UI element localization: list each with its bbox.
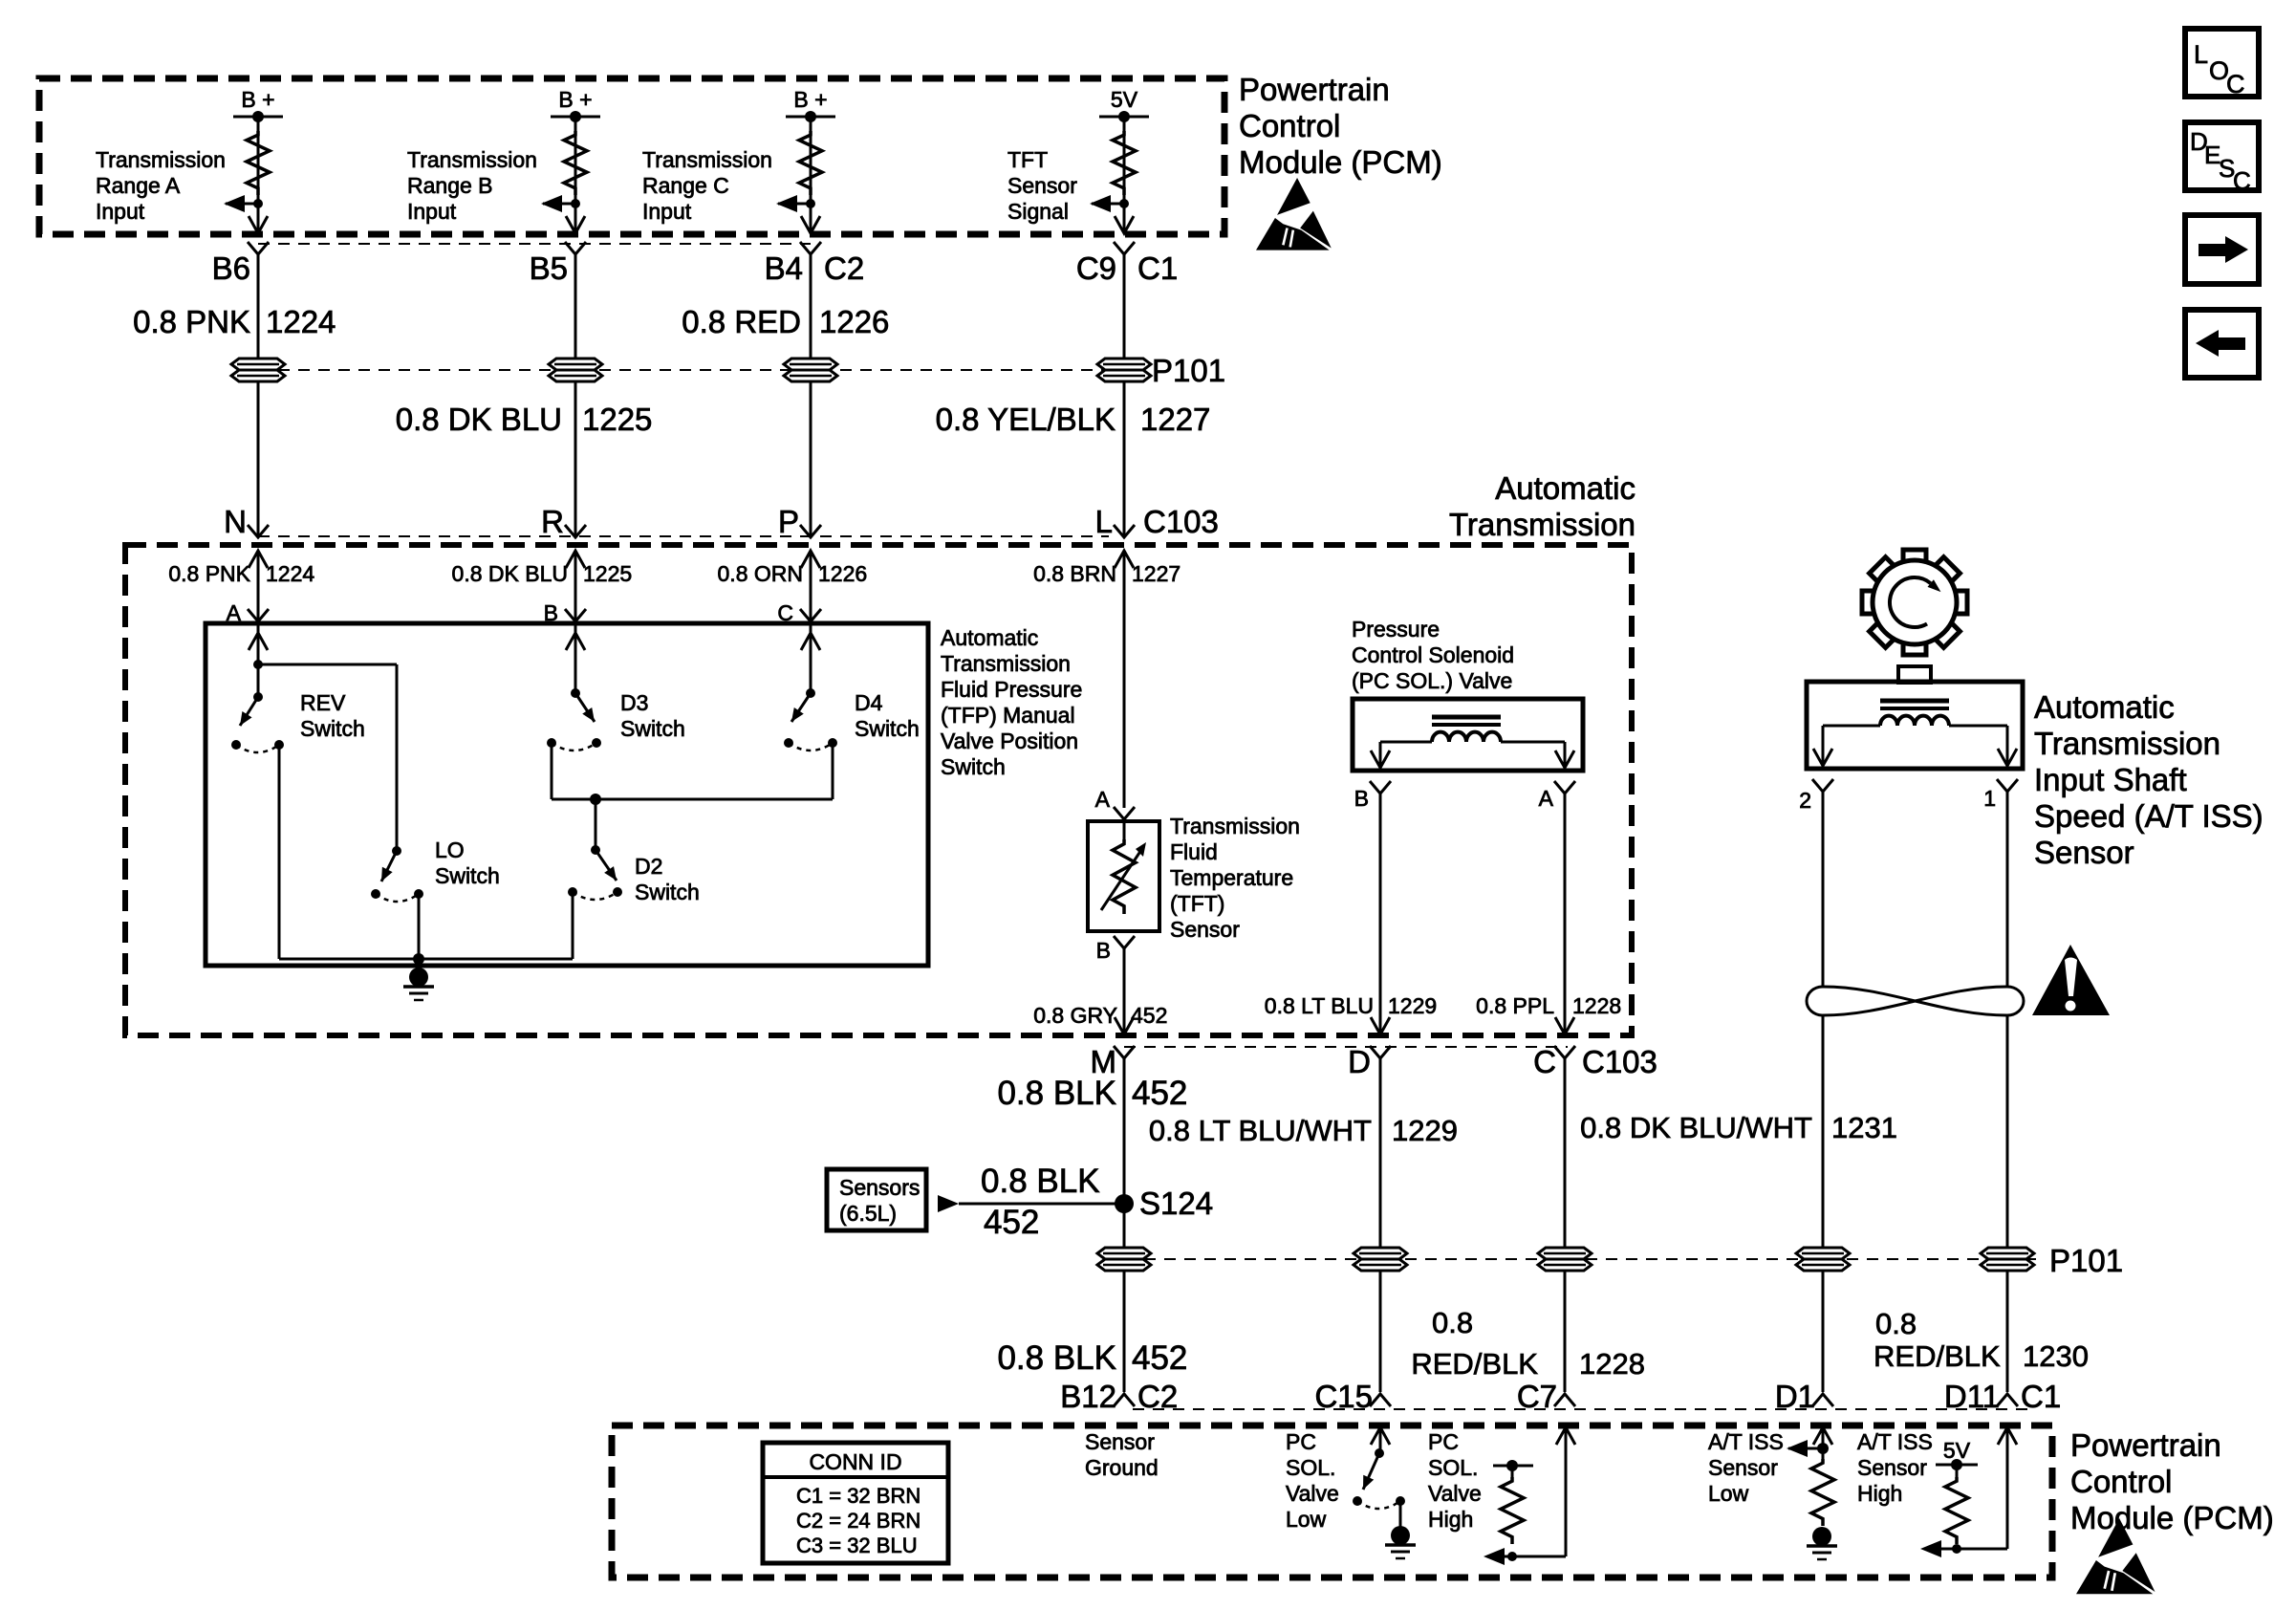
- wire with direction arrow: [1115, 551, 1134, 568]
- svg-text:C2 = 24 BRN: C2 = 24 BRN: [796, 1509, 921, 1533]
- svg-text:L: L: [1095, 504, 1113, 539]
- svg-text:Sensor: Sensor: [2034, 835, 2134, 870]
- connector pin C15: [1370, 1394, 1391, 1406]
- connector pin B6: [248, 242, 269, 254]
- A/T ISS sensor box: [1807, 682, 2023, 769]
- svg-text:High: High: [1857, 1481, 1902, 1506]
- svg-text:A/T ISS: A/T ISS: [1708, 1429, 1784, 1454]
- REV switch: [249, 633, 268, 650]
- svg-text:0.8 RED: 0.8 RED: [682, 304, 801, 339]
- P101 pass-through grommet: [549, 359, 602, 381]
- arrows leaving AT box: [1371, 1017, 1390, 1034]
- svg-text:B12: B12: [1060, 1379, 1116, 1414]
- svg-text:R: R: [541, 504, 564, 539]
- svg-text:PC: PC: [1428, 1429, 1459, 1454]
- wire: [574, 117, 577, 232]
- P101 pass-through grommet: [1796, 1248, 1850, 1271]
- P101 pass-through grommet: [1097, 359, 1151, 381]
- svg-text:(PC SOL.) Valve: (PC SOL.) Valve: [1352, 668, 1512, 693]
- node junction at B+ resistor output: [806, 199, 815, 208]
- svg-text:Input: Input: [96, 199, 145, 224]
- resistor A/T ISS low: [1811, 1459, 1834, 1526]
- svg-text:1226: 1226: [818, 561, 867, 586]
- P101 pass-through grommet: [1354, 1248, 1407, 1271]
- svg-text:Automatic: Automatic: [1495, 470, 1635, 506]
- svg-text:LO: LO: [435, 838, 465, 862]
- twisted pair symbol: [1807, 987, 2024, 1015]
- wire 1231 DK BLU/WHT upper: [1822, 792, 1825, 987]
- svg-text:0.8 BRN: 0.8 BRN: [1033, 561, 1116, 586]
- PCM module box (bottom): [612, 1425, 2052, 1577]
- resistor PC SOL valve high: [1507, 1552, 1517, 1561]
- connector pin N of C103: [248, 525, 269, 537]
- connector P101 (row 1, thin dashed): [258, 369, 1137, 371]
- svg-text:P: P: [778, 504, 799, 539]
- svg-text:Ground: Ground: [1085, 1455, 1159, 1480]
- warning triangle note: [2032, 945, 2110, 1015]
- svg-text:D1: D1: [1775, 1379, 1815, 1414]
- svg-text:1229: 1229: [1392, 1114, 1458, 1147]
- svg-text:(TFT): (TFT): [1170, 891, 1224, 916]
- pin D of C103: [1370, 1046, 1391, 1058]
- svg-text:D4: D4: [855, 690, 883, 715]
- connector pin R of C103: [565, 525, 586, 537]
- wire 1229 LT BLU/WHT: [1379, 1058, 1382, 1248]
- wire segment 1226 RED: [810, 254, 812, 359]
- node junction at B+ resistor output: [253, 199, 263, 208]
- wire 452 BLK: [1123, 1058, 1126, 1248]
- svg-text:Range A: Range A: [96, 173, 181, 198]
- wire: [1564, 1271, 1567, 1392]
- DESC button: [2185, 122, 2259, 190]
- svg-text:B4: B4: [765, 250, 803, 286]
- svg-text:Powertrain: Powertrain: [1239, 72, 1390, 107]
- svg-text:RED/BLK: RED/BLK: [1411, 1347, 1538, 1381]
- svg-text:1225: 1225: [582, 402, 652, 437]
- svg-text:B +: B +: [558, 87, 592, 112]
- svg-text:Switch: Switch: [300, 716, 365, 741]
- PC solenoid coil L1: [1432, 715, 1501, 720]
- svg-text:1228: 1228: [1572, 993, 1621, 1018]
- svg-text:Valve: Valve: [1428, 1481, 1482, 1506]
- wire: [810, 117, 812, 232]
- svg-text:Switch: Switch: [435, 863, 500, 888]
- wire: [1822, 1271, 1825, 1392]
- svg-text:Switch: Switch: [635, 880, 700, 904]
- ESD sensitivity symbol (bottom): [2076, 1518, 2155, 1594]
- svg-text:L: L: [2194, 40, 2208, 69]
- D2 switch: [596, 850, 617, 881]
- svg-text:Powertrain: Powertrain: [2070, 1427, 2221, 1463]
- connector line (thin dashed) into PCM: [1133, 1408, 2027, 1410]
- svg-text:1224: 1224: [266, 304, 336, 339]
- svg-text:C2: C2: [1137, 1379, 1178, 1414]
- TFP switch pin A: [248, 609, 269, 621]
- wire 1228 RED/BLK: [1564, 1058, 1567, 1248]
- wire with direction arrow: [801, 551, 820, 568]
- ground (TFP switch case): [409, 968, 428, 987]
- ISS sensor mount: [1898, 666, 1931, 683]
- svg-text:Control Solenoid: Control Solenoid: [1352, 642, 1514, 667]
- Automatic Transmission boundary box: [125, 545, 1632, 1035]
- wire to P101 right: [2006, 1015, 2009, 1248]
- svg-text:B6: B6: [212, 250, 250, 286]
- ESD sensitivity symbol (top): [1256, 178, 1332, 250]
- svg-text:Valve: Valve: [1286, 1481, 1339, 1506]
- svg-text:Transmission: Transmission: [1449, 507, 1635, 542]
- node junction on bus: [590, 794, 601, 805]
- svg-text:REV: REV: [300, 690, 346, 715]
- pin C of C103: [1554, 1046, 1575, 1058]
- gear icon (input shaft): [1862, 550, 1967, 655]
- svg-text:C: C: [2233, 166, 2251, 195]
- svg-text:Range B: Range B: [407, 173, 493, 198]
- P101 pass-through grommet: [784, 359, 837, 381]
- svg-text:0.8: 0.8: [1432, 1306, 1473, 1339]
- svg-text:P101: P101: [1152, 353, 1225, 388]
- svg-text:SOL.: SOL.: [1428, 1455, 1478, 1480]
- svg-text:(TFP) Manual: (TFP) Manual: [941, 703, 1075, 728]
- connector C103 (row 1, thin dashed): [258, 535, 1109, 537]
- svg-text:Switch: Switch: [620, 716, 685, 741]
- connector pin C9 / C1: [1114, 242, 1135, 254]
- svg-text:Transmission: Transmission: [642, 147, 772, 172]
- svg-text:Sensor: Sensor: [1708, 1455, 1778, 1480]
- wire REV contact down to bottom bus: [278, 745, 281, 959]
- svg-text:1224: 1224: [266, 561, 314, 586]
- svg-text:C1: C1: [2021, 1379, 2061, 1414]
- svg-text:452: 452: [1131, 1003, 1167, 1028]
- svg-text:Module (PCM): Module (PCM): [1239, 144, 1442, 180]
- connector P101 (row 2, thin dashed): [1124, 1258, 2036, 1260]
- svg-text:D: D: [1348, 1044, 1371, 1079]
- svg-text:Transmission: Transmission: [1170, 814, 1300, 838]
- svg-text:0.8 ORN: 0.8 ORN: [718, 561, 803, 586]
- svg-text:Speed (A/T ISS): Speed (A/T ISS): [2034, 798, 2264, 834]
- connector pin B5: [565, 242, 586, 254]
- arrow out of PCM: [566, 216, 585, 233]
- wire to internal logic with arrow: [226, 203, 258, 206]
- resistor R4 TFT sensor pull-up: [1113, 131, 1136, 195]
- wire segment 1227 YEL/BLK: [1123, 254, 1126, 359]
- svg-text:High: High: [1428, 1507, 1473, 1532]
- wire with direction arrow: [249, 551, 268, 568]
- ground (A/T ISS low): [1812, 1527, 1831, 1546]
- svg-text:D11: D11: [1944, 1379, 2000, 1414]
- arrow out of PCM: [249, 216, 268, 233]
- PCM module box (top): [39, 78, 1224, 234]
- svg-text:Fluid: Fluid: [1170, 839, 1218, 864]
- svg-text:Sensors: Sensors: [839, 1175, 920, 1200]
- connector pin D11 / C1: [1997, 1394, 2018, 1406]
- PC solenoid valve box: [1353, 699, 1583, 771]
- arrow out of PCM: [801, 216, 820, 233]
- resistor R1 Transmission Range A pull-up: [247, 131, 270, 195]
- wire to internal logic with arrow: [543, 203, 575, 206]
- TFP switch pin B: [565, 609, 586, 621]
- resistor A/T ISS high (5V): [1945, 1477, 1968, 1544]
- svg-text:Low: Low: [1286, 1507, 1327, 1532]
- arrow out of PCM: [1115, 216, 1134, 233]
- svg-text:Automatic: Automatic: [2034, 689, 2175, 725]
- wire 452 BLK to splice: [959, 1203, 1124, 1206]
- P101 pass-through grommet: [1981, 1248, 2034, 1271]
- svg-text:1231: 1231: [1831, 1111, 1897, 1144]
- wire D2 contact to bottom bus: [572, 892, 574, 959]
- svg-text:A: A: [1539, 786, 1554, 811]
- CONN ID table: [763, 1443, 948, 1563]
- svg-text:Input Shaft: Input Shaft: [2034, 762, 2187, 797]
- wire to internal logic with arrow: [1092, 203, 1124, 206]
- wire: [1123, 1271, 1126, 1392]
- svg-text:Low: Low: [1708, 1481, 1749, 1506]
- svg-text:1225: 1225: [583, 561, 632, 586]
- connector pin P of C103: [800, 525, 821, 537]
- svg-text:C103: C103: [1143, 504, 1219, 539]
- wire: [1379, 1271, 1382, 1392]
- P101 pass-through grommet: [1538, 1248, 1592, 1271]
- pin M of C103: [1114, 1046, 1135, 1058]
- wire 452 GRY from TFT sensor: [1123, 948, 1126, 1021]
- svg-text:452: 452: [1132, 1075, 1187, 1112]
- svg-text:Transmission: Transmission: [96, 147, 226, 172]
- svg-text:0.8 DK BLU: 0.8 DK BLU: [396, 402, 562, 437]
- svg-text:TFT: TFT: [1007, 147, 1048, 172]
- svg-text:Automatic: Automatic: [941, 625, 1038, 650]
- wire to internal logic with arrow: [778, 203, 811, 206]
- svg-text:C3 = 32 BLU: C3 = 32 BLU: [796, 1534, 918, 1557]
- svg-text:452: 452: [1132, 1339, 1187, 1377]
- svg-text:0.8 PPL: 0.8 PPL: [1476, 993, 1554, 1018]
- svg-text:D2: D2: [635, 854, 662, 879]
- svg-text:1228: 1228: [1579, 1347, 1645, 1381]
- wire 1230 RED/BLK upper: [2006, 792, 2009, 987]
- svg-text:D3: D3: [620, 690, 648, 715]
- svg-text:Valve Position: Valve Position: [941, 729, 1078, 753]
- svg-text:5V: 5V: [1111, 87, 1138, 112]
- TFP manual valve position switch box: [206, 623, 928, 966]
- connector pin B4 / C2: [800, 242, 821, 254]
- P101 pass-through grommet: [231, 359, 285, 381]
- svg-text:Transmission: Transmission: [941, 651, 1071, 676]
- PC SOL valve low driver switch: [1371, 1427, 1390, 1445]
- node junction to ground: [413, 953, 424, 965]
- svg-text:Input: Input: [407, 199, 457, 224]
- svg-text:Control: Control: [1239, 108, 1340, 143]
- svg-text:C1: C1: [1137, 250, 1178, 286]
- splice S124: [1115, 1194, 1134, 1213]
- wire segment 1224 PNK: [257, 254, 260, 359]
- svg-text:0.8 PNK: 0.8 PNK: [133, 304, 250, 339]
- wire LO contact to ground bus: [418, 894, 421, 959]
- node junction at 5V resistor output: [1119, 199, 1129, 208]
- svg-text:Transmission: Transmission: [2034, 726, 2220, 761]
- svg-text:Module (PCM): Module (PCM): [2070, 1500, 2274, 1535]
- svg-text:0.8 PNK: 0.8 PNK: [168, 561, 250, 586]
- wire: [2006, 1271, 2009, 1392]
- svg-text:0.8 BLK: 0.8 BLK: [981, 1163, 1100, 1200]
- svg-text:2: 2: [1799, 788, 1811, 813]
- connector pin B12 / C2: [1114, 1394, 1135, 1406]
- svg-text:B: B: [1096, 938, 1111, 963]
- svg-text:P101: P101: [2049, 1243, 2123, 1278]
- svg-text:1226: 1226: [819, 304, 889, 339]
- svg-text:A: A: [1095, 787, 1111, 812]
- svg-text:0.8 BLK: 0.8 BLK: [997, 1075, 1116, 1112]
- svg-text:Pressure: Pressure: [1352, 617, 1440, 642]
- svg-text:C1 = 32 BRN: C1 = 32 BRN: [796, 1484, 921, 1508]
- svg-text:C15: C15: [1314, 1379, 1373, 1414]
- svg-text:C103: C103: [1582, 1044, 1657, 1079]
- svg-text:Sensor: Sensor: [1085, 1429, 1155, 1454]
- node junction at B+ resistor output: [571, 199, 580, 208]
- TFP switch pin C: [800, 609, 821, 621]
- svg-text:B5: B5: [530, 250, 568, 286]
- svg-text:1230: 1230: [2023, 1339, 2089, 1373]
- back arrow button: [2185, 310, 2259, 378]
- svg-text:0.8 YEL/BLK: 0.8 YEL/BLK: [936, 402, 1116, 437]
- svg-text:B +: B +: [241, 87, 274, 112]
- wire to P101 left: [1822, 1015, 1825, 1248]
- svg-text:0.8: 0.8: [1875, 1307, 1917, 1340]
- wire: [1123, 117, 1126, 232]
- arrow leaving AT box: [1115, 1017, 1134, 1034]
- wire bus D3-D4 to D2: [552, 798, 833, 801]
- svg-text:452: 452: [984, 1204, 1039, 1241]
- svg-text:Switch: Switch: [855, 716, 920, 741]
- wire bottom ground bus: [279, 958, 573, 961]
- svg-text:B +: B +: [793, 87, 827, 112]
- svg-text:C: C: [1533, 1044, 1556, 1079]
- connector line C2 (thin dashed): [258, 243, 811, 245]
- wire with direction arrow: [566, 551, 585, 568]
- connector pin C7: [1554, 1394, 1575, 1406]
- svg-text:0.8 DK BLU/WHT: 0.8 DK BLU/WHT: [1580, 1111, 1812, 1144]
- svg-text:(6.5L): (6.5L): [839, 1201, 897, 1226]
- wire 1228 PPL: [1564, 794, 1567, 1021]
- svg-text:N: N: [224, 504, 247, 539]
- arrow from sensors box: [938, 1195, 959, 1212]
- svg-text:C2: C2: [824, 250, 864, 286]
- connector pin L of C103: [1114, 525, 1135, 537]
- connector C103 (row 2, thin dashed): [1124, 1046, 1568, 1048]
- svg-text:Range C: Range C: [642, 173, 729, 198]
- svg-text:1: 1: [1983, 786, 1996, 811]
- svg-text:1229: 1229: [1388, 993, 1437, 1018]
- wire D4 contact down: [832, 743, 834, 799]
- forward arrow button: [2185, 215, 2259, 284]
- resistor R2 Transmission Range B pull-up: [564, 131, 587, 195]
- svg-text:1227: 1227: [1132, 561, 1180, 586]
- A/T ISS sensor low circuit: [1813, 1427, 1832, 1445]
- svg-text:0.8 DK BLU: 0.8 DK BLU: [452, 561, 568, 586]
- svg-text:0.8 LT BLU/WHT: 0.8 LT BLU/WHT: [1149, 1114, 1372, 1147]
- svg-text:Transmission: Transmission: [407, 147, 537, 172]
- svg-text:Sensor: Sensor: [1857, 1455, 1927, 1480]
- PC SOL valve high circuit: [1556, 1427, 1575, 1445]
- svg-text:Sensor: Sensor: [1007, 173, 1077, 198]
- svg-text:Input: Input: [642, 199, 692, 224]
- D4 switch: [801, 633, 820, 650]
- svg-text:CONN ID: CONN ID: [809, 1449, 901, 1474]
- svg-text:C7: C7: [1517, 1379, 1557, 1414]
- resistor R3 Transmission Range C pull-up: [799, 131, 822, 195]
- A/T ISS sensor high circuit: [1998, 1427, 2017, 1445]
- ground (PC SOL valve low): [1391, 1526, 1410, 1545]
- Sensors (6.5L) reference box: [827, 1169, 926, 1230]
- wire REV common to LO switch: [258, 664, 397, 666]
- svg-text:Signal: Signal: [1007, 199, 1069, 224]
- ISS sensor coil L2: [1880, 699, 1949, 704]
- svg-text:C9: C9: [1076, 250, 1116, 286]
- svg-text:Temperature: Temperature: [1170, 865, 1293, 890]
- svg-text:Switch: Switch: [941, 754, 1006, 779]
- wire 1229 LT BLU: [1379, 794, 1382, 1021]
- svg-text:PC: PC: [1286, 1429, 1316, 1454]
- svg-text:0.8 BLK: 0.8 BLK: [997, 1339, 1116, 1377]
- TFT thermistor element: [1113, 839, 1136, 914]
- svg-text:Control: Control: [2070, 1464, 2172, 1499]
- svg-text:0.8 GRY: 0.8 GRY: [1033, 1003, 1117, 1028]
- svg-text:Sensor: Sensor: [1170, 917, 1240, 942]
- wire D3 contact down: [551, 743, 553, 799]
- wire segment 1225 DK BLU: [574, 254, 577, 359]
- D3 switch: [566, 633, 585, 650]
- svg-text:Fluid Pressure: Fluid Pressure: [941, 677, 1082, 702]
- LOC button: [2185, 29, 2259, 97]
- wire: [257, 117, 260, 232]
- P101 pass-through grommet: [1097, 1248, 1151, 1271]
- svg-text:S124: S124: [1139, 1186, 1213, 1221]
- connector pin D1: [1812, 1394, 1833, 1406]
- svg-text:SOL.: SOL.: [1286, 1455, 1335, 1480]
- svg-text:C: C: [2226, 70, 2245, 98]
- svg-text:1227: 1227: [1140, 402, 1210, 437]
- svg-text:RED/BLK: RED/BLK: [1874, 1339, 2001, 1373]
- svg-text:B: B: [1354, 786, 1369, 811]
- LO switch: [381, 851, 397, 881]
- svg-text:A/T ISS: A/T ISS: [1857, 1429, 1933, 1454]
- TFT sensor (variable resistor) box: [1088, 821, 1159, 931]
- svg-text:0.8 LT BLU: 0.8 LT BLU: [1265, 993, 1374, 1018]
